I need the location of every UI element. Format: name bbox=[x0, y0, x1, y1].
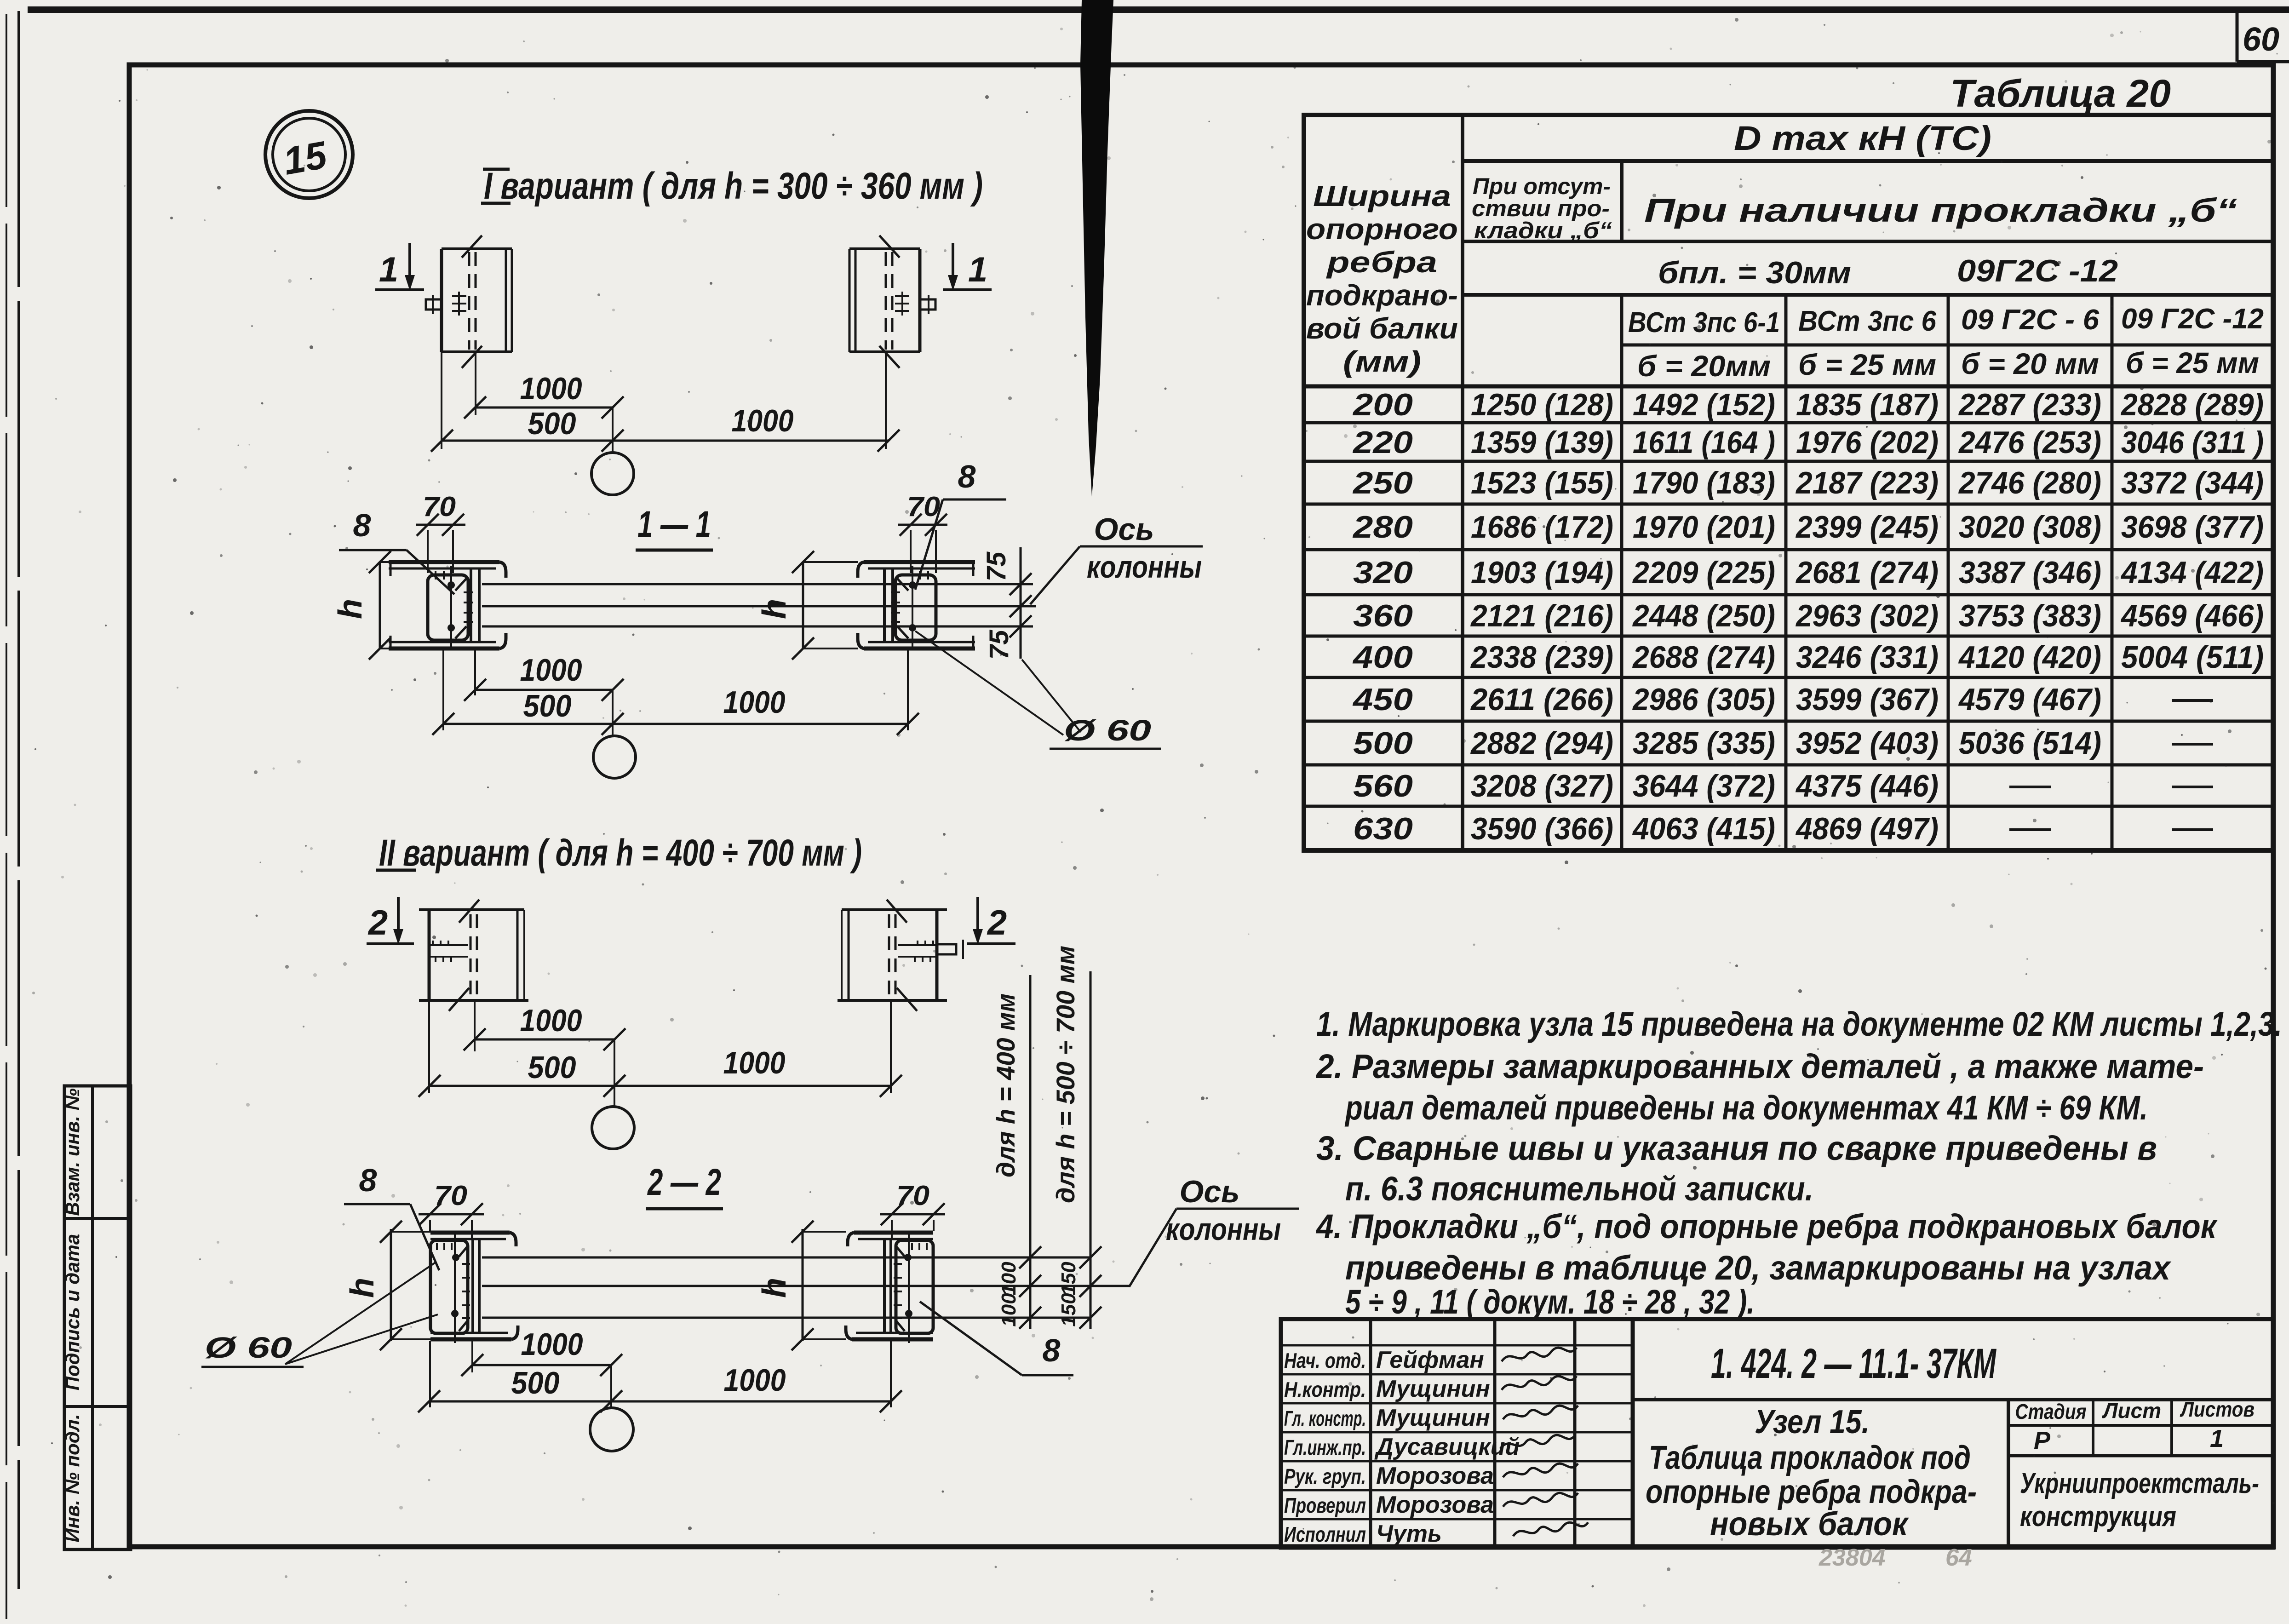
bottom flange bbox=[389, 647, 499, 651]
channel top flange bbox=[430, 1231, 510, 1235]
svg-text:Ø 60: Ø 60 bbox=[1064, 714, 1151, 747]
title text cell bbox=[2007, 1400, 2010, 1548]
svg-text:I вариант ( для h = 300 ÷ 360: I вариант ( для h = 300 ÷ 360 мм ) bbox=[484, 165, 983, 207]
svg-text:3599 (367): 3599 (367) bbox=[1796, 682, 1939, 717]
dim h left bbox=[379, 562, 381, 648]
svg-text:200: 200 bbox=[1352, 387, 1413, 422]
svg-text:При наличии прокладки „б“: При наличии прокладки „б“ bbox=[1644, 192, 2237, 229]
svg-text:2681 (274): 2681 (274) bbox=[1795, 555, 1939, 590]
svg-text:5004 (511): 5004 (511) bbox=[2121, 640, 2264, 675]
web bbox=[470, 568, 472, 642]
svg-text:5 ÷ 9 , 11 ( докум. 18 ÷ 28: 5 ÷ 9 , 11 ( докум. 18 ÷ 28 , 32 ). bbox=[1345, 1283, 1755, 1321]
table data row lines bbox=[1304, 421, 2273, 425]
svg-text:15: 15 bbox=[280, 133, 331, 183]
svg-text:4120 (420): 4120 (420) bbox=[1958, 640, 2101, 675]
svg-text:Рук. груп.: Рук. груп. bbox=[1284, 1464, 1366, 1488]
svg-text:2121 (216): 2121 (216) bbox=[1470, 598, 1613, 633]
svg-text:для h = 500 ÷ 700 мм: для h = 500 ÷ 700 мм bbox=[1051, 946, 1080, 1203]
svg-text:приведены в таблице 20, за: приведены в таблице 20, замаркированы на… bbox=[1345, 1249, 2172, 1287]
svg-text:2688 (274): 2688 (274) bbox=[1632, 640, 1775, 675]
svg-text:500: 500 bbox=[1353, 726, 1413, 761]
svg-text:h: h bbox=[756, 1278, 793, 1298]
hidden plate dashed edges bbox=[468, 252, 470, 350]
table header lines bbox=[1463, 159, 2273, 163]
dashed hidden edges bbox=[470, 914, 472, 998]
svg-text:100: 100 bbox=[998, 1262, 1020, 1296]
svg-text:опорные ребра подкра-: опорные ребра подкра- bbox=[1646, 1474, 1977, 1510]
hidden plate dashed edges bbox=[891, 252, 894, 350]
section 1-1 left channel bbox=[389, 562, 506, 648]
rib centre line bbox=[450, 566, 452, 648]
svg-text:Таблица 20: Таблица 20 bbox=[1950, 72, 2171, 115]
svg-text:II вариант ( для h = 400 ÷ 7: II вариант ( для h = 400 ÷ 700 мм ) bbox=[379, 832, 862, 874]
svg-text:ВСт 3пс 6-1: ВСт 3пс 6-1 bbox=[1628, 307, 1780, 339]
beam lines 2-2 bbox=[482, 1257, 1090, 1259]
svg-text:280: 280 bbox=[1352, 510, 1413, 545]
dim h right 2-2 bbox=[802, 1229, 804, 1341]
svg-text:2882 (294): 2882 (294) bbox=[1470, 726, 1613, 761]
svg-text:Р: Р bbox=[2034, 1427, 2051, 1454]
svg-text:Мущинин: Мущинин bbox=[1376, 1376, 1490, 1402]
crane beam channel: top flange bbox=[864, 560, 975, 564]
rib centre bbox=[908, 1231, 910, 1343]
dia 60 label 1-1 bbox=[915, 631, 1063, 735]
dim 70 left 2-2 bbox=[419, 1213, 484, 1216]
svg-text:Проверил: Проверил bbox=[1284, 1493, 1366, 1517]
axis kolonny label 2-2 bbox=[1129, 1209, 1176, 1287]
section 2-2 left channel bbox=[430, 1231, 518, 1343]
svg-text:для h = 400 мм: для h = 400 мм bbox=[991, 993, 1020, 1177]
weld rows bbox=[428, 944, 468, 946]
svg-text:5036 (514): 5036 (514) bbox=[1959, 726, 2101, 761]
column plate bbox=[935, 911, 939, 1000]
svg-text:вой балки: вой балки bbox=[1306, 312, 1458, 345]
svg-text:Стадия: Стадия bbox=[2015, 1400, 2087, 1423]
svg-text:Исполнил: Исполнил bbox=[1284, 1522, 1366, 1546]
bearing rib plate bbox=[428, 575, 468, 640]
web bbox=[889, 1239, 892, 1333]
beam end plate bbox=[440, 249, 443, 352]
svg-text:60: 60 bbox=[2243, 21, 2279, 58]
svg-text:1492 (152): 1492 (152) bbox=[1633, 387, 1775, 422]
svg-text:560: 560 bbox=[1353, 769, 1413, 803]
svg-text:23804: 23804 bbox=[1819, 1544, 1886, 1571]
svg-text:4375 (446): 4375 (446) bbox=[1795, 769, 1939, 803]
svg-text:б = 20мм: б = 20мм bbox=[1637, 350, 1771, 383]
title block verticals bbox=[1369, 1319, 1372, 1548]
svg-text:2399 (245): 2399 (245) bbox=[1795, 510, 1939, 545]
top page edge line bbox=[28, 6, 2289, 13]
svg-text:150: 150 bbox=[1057, 1262, 1080, 1296]
svg-text:8: 8 bbox=[359, 1162, 377, 1198]
svg-text:3372 (344): 3372 (344) bbox=[2121, 465, 2264, 500]
title block left rows bbox=[1281, 1344, 1633, 1347]
II variant plan left assembly bbox=[419, 900, 528, 1011]
svg-text:3. Сварные швы и указани: 3. Сварные швы и указания по сварке прив… bbox=[1316, 1129, 2157, 1167]
beam end plate bbox=[918, 249, 922, 352]
weld marks bbox=[452, 295, 466, 297]
section 1-1 right channel bbox=[858, 562, 975, 648]
svg-text:70: 70 bbox=[423, 491, 456, 522]
table 20 outer border bbox=[1304, 115, 2273, 850]
svg-text:Гл. констр.: Гл. констр. bbox=[1284, 1406, 1366, 1430]
svg-text:п. 6.3 пояснительной запис: п. 6.3 пояснительной записки. bbox=[1345, 1170, 1813, 1208]
extensions II plan bbox=[428, 1000, 430, 1093]
rib centre line bbox=[912, 566, 913, 648]
svg-text:500: 500 bbox=[528, 1050, 576, 1085]
svg-text:подкрано-: подкрано- bbox=[1306, 279, 1458, 312]
bearing rib bbox=[896, 1240, 933, 1333]
svg-text:D max кН (ТС): D max кН (ТС) bbox=[1734, 119, 1991, 157]
svg-text:1250 (128): 1250 (128) bbox=[1471, 387, 1613, 422]
bearing rib bbox=[430, 1240, 468, 1333]
II variant plan right assembly bbox=[838, 900, 947, 1011]
svg-text:64: 64 bbox=[1945, 1544, 1972, 1571]
node circle I plan bbox=[612, 407, 614, 453]
dim 1000 upper I plan bbox=[475, 407, 613, 409]
svg-text:500: 500 bbox=[528, 406, 576, 441]
dim h right bbox=[802, 562, 804, 648]
dim 70 right bbox=[898, 524, 947, 526]
svg-text:1. Маркировка узла 15 пр: 1. Маркировка узла 15 приведена на докум… bbox=[1316, 1005, 2282, 1043]
dim 70 left bbox=[416, 524, 465, 526]
svg-text:2828 (289): 2828 (289) bbox=[2120, 387, 2264, 422]
bottom flange bbox=[430, 1337, 511, 1342]
svg-text:4. Прокладки „б“, под опорны: 4. Прокладки „б“, под опорные ребра подк… bbox=[1315, 1207, 2218, 1245]
svg-text:(мм): (мм) bbox=[1343, 345, 1421, 378]
svg-text:h: h bbox=[756, 599, 793, 619]
svg-text:3644 (372): 3644 (372) bbox=[1633, 769, 1775, 803]
bearing rib plate bbox=[895, 575, 936, 640]
doc number cell bbox=[1633, 1398, 2273, 1401]
svg-text:h: h bbox=[332, 599, 369, 619]
rib centre bbox=[454, 1231, 456, 1343]
stamp boxes left margin bbox=[64, 1086, 131, 1549]
svg-text:новых балок: новых балок bbox=[1710, 1506, 1909, 1543]
svg-text:75: 75 bbox=[984, 630, 1014, 660]
dim 1000 upper 1-1 bbox=[475, 689, 613, 691]
node circle 1-1 bbox=[612, 690, 614, 736]
svg-text:2338 (239): 2338 (239) bbox=[1470, 640, 1613, 675]
svg-text:Чуть: Чуть bbox=[1376, 1521, 1442, 1547]
svg-text:Н.контр.: Н.контр. bbox=[1284, 1377, 1366, 1401]
svg-text:2611 (266): 2611 (266) bbox=[1470, 682, 1613, 717]
svg-text:1790 (183): 1790 (183) bbox=[1633, 465, 1775, 500]
svg-text:75: 75 bbox=[981, 551, 1011, 581]
svg-text:1611 (164 ): 1611 (164 ) bbox=[1633, 425, 1775, 460]
svg-text:1: 1 bbox=[2210, 1425, 2224, 1452]
svg-text:1686 (172): 1686 (172) bbox=[1471, 510, 1613, 545]
svg-text:2: 2 bbox=[987, 903, 1007, 942]
svg-text:3046 (311 ): 3046 (311 ) bbox=[2121, 425, 2264, 460]
svg-text:Ось: Ось bbox=[1094, 512, 1154, 547]
dim 70 right 2-2 bbox=[880, 1213, 945, 1216]
svg-text:Таблица прокладок под: Таблица прокладок под bbox=[1649, 1440, 1971, 1476]
svg-text:4569 (466): 4569 (466) bbox=[2120, 598, 2264, 633]
svg-text:Подпись и дата: Подпись и дата bbox=[62, 1234, 83, 1390]
svg-text:1000: 1000 bbox=[521, 1327, 583, 1362]
svg-text:Нач. отд.: Нач. отд. bbox=[1284, 1349, 1366, 1372]
crane beam channel: top flange bbox=[389, 560, 499, 564]
svg-text:б = 20 мм: б = 20 мм bbox=[1961, 347, 2099, 380]
svg-text:220: 220 bbox=[1352, 425, 1413, 460]
svg-text:2. Размеры замаркированных: 2. Размеры замаркированных деталей , а т… bbox=[1315, 1047, 2204, 1085]
svg-text:3020 (308): 3020 (308) bbox=[1959, 510, 2101, 545]
dim 1000 upper II plan bbox=[475, 1039, 614, 1041]
svg-text:1: 1 bbox=[968, 250, 987, 289]
svg-text:360: 360 bbox=[1353, 598, 1413, 633]
svg-text:3246 (331): 3246 (331) bbox=[1796, 640, 1939, 675]
svg-text:2448 (250): 2448 (250) bbox=[1632, 598, 1775, 633]
svg-text:3208 (327): 3208 (327) bbox=[1471, 769, 1613, 803]
svg-text:100: 100 bbox=[998, 1293, 1020, 1327]
weld ticks bbox=[926, 1243, 928, 1250]
svg-text:Листов: Листов bbox=[2180, 1397, 2255, 1421]
svg-text:630: 630 bbox=[1353, 811, 1413, 846]
svg-text:ребра: ребра bbox=[1325, 246, 1437, 279]
svg-text:320: 320 bbox=[1353, 555, 1413, 590]
svg-text:1 — 1: 1 — 1 bbox=[637, 504, 711, 545]
svg-text:70: 70 bbox=[896, 1180, 929, 1211]
svg-text:Мущинин: Мущинин bbox=[1376, 1405, 1490, 1431]
svg-text:Инв. № подл.: Инв. № подл. bbox=[62, 1414, 83, 1542]
svg-text:б = 25 мм: б = 25 мм bbox=[1798, 348, 1936, 381]
svg-text:1903 (194): 1903 (194) bbox=[1471, 555, 1613, 590]
bottom flange bbox=[852, 1337, 933, 1342]
svg-text:2: 2 bbox=[367, 903, 388, 942]
svg-text:1000: 1000 bbox=[520, 1003, 582, 1038]
break slashes bbox=[459, 900, 479, 923]
sheet corner 60 box bbox=[2236, 8, 2239, 62]
node 15 double circle bbox=[265, 111, 353, 198]
svg-text:4134 (422): 4134 (422) bbox=[2120, 555, 2264, 590]
svg-text:h: h bbox=[344, 1278, 381, 1298]
svg-text:70: 70 bbox=[434, 1180, 467, 1211]
svg-text:2986 (305): 2986 (305) bbox=[1632, 682, 1775, 717]
extension lines I plan bbox=[441, 352, 442, 449]
vertical dim lines dlya h bbox=[1029, 975, 1032, 1329]
dim 75 75 right bbox=[1020, 547, 1022, 659]
weld marks bbox=[895, 295, 909, 297]
svg-text:бпл. = 30мм: бпл. = 30мм bbox=[1658, 255, 1851, 290]
svg-text:Лист: Лист bbox=[2102, 1399, 2161, 1423]
svg-text:4063 (415): 4063 (415) bbox=[1632, 811, 1775, 846]
svg-text:09 Г2С -12: 09 Г2С -12 bbox=[2121, 303, 2264, 335]
svg-text:1: 1 bbox=[379, 250, 398, 289]
svg-text:09Г2С -12: 09Г2С -12 bbox=[1957, 253, 2118, 288]
section 1-1 lower extensions bbox=[442, 648, 444, 730]
break slashes bbox=[887, 900, 907, 923]
node circle 2-2 bbox=[610, 1365, 612, 1408]
svg-text:1000: 1000 bbox=[520, 371, 582, 406]
svg-text:4579 (467): 4579 (467) bbox=[1958, 682, 2101, 717]
svg-text:1000: 1000 bbox=[724, 1363, 786, 1398]
svg-text:2746 (280): 2746 (280) bbox=[1958, 465, 2101, 500]
I variant plan right assembly bbox=[849, 235, 935, 368]
svg-text:150: 150 bbox=[1057, 1293, 1080, 1327]
svg-text:450: 450 bbox=[1352, 682, 1413, 717]
svg-text:3387 (346): 3387 (346) bbox=[1959, 555, 2101, 590]
svg-text:кладки „б“: кладки „б“ bbox=[1474, 218, 1612, 243]
svg-text:3698 (377): 3698 (377) bbox=[2121, 510, 2264, 545]
svg-text:конструкция: конструкция bbox=[2020, 1501, 2176, 1532]
node circle II plan bbox=[614, 1039, 615, 1107]
weld ticks bbox=[927, 571, 929, 580]
web bbox=[891, 568, 894, 642]
svg-text:2963 (302): 2963 (302) bbox=[1795, 598, 1939, 633]
svg-text:1000: 1000 bbox=[520, 653, 582, 688]
svg-text:1523 (155): 1523 (155) bbox=[1471, 465, 1613, 500]
svg-text:3753 (383): 3753 (383) bbox=[1959, 598, 2101, 633]
weld ticks bbox=[436, 1243, 438, 1250]
svg-text:1000: 1000 bbox=[723, 685, 786, 720]
web bbox=[471, 1239, 474, 1333]
svg-text:250: 250 bbox=[1352, 465, 1413, 500]
section 2-2 lower extensions bbox=[429, 1341, 431, 1407]
svg-text:Морозова: Морозова bbox=[1376, 1492, 1494, 1518]
svg-text:1. 424. 2 — 11.1- 37КМ: 1. 424. 2 — 11.1- 37КМ bbox=[1711, 1340, 1997, 1387]
dim 500 1000 lower II plan bbox=[430, 1085, 891, 1087]
svg-text:опорного: опорного bbox=[1306, 212, 1458, 246]
svg-text:б = 25 мм: б = 25 мм bbox=[2126, 346, 2259, 379]
svg-text:Морозова: Морозова bbox=[1376, 1463, 1494, 1489]
svg-text:Дусавицкий: Дусавицкий bbox=[1374, 1434, 1520, 1460]
dashed hidden edges bbox=[895, 914, 897, 998]
svg-text:8: 8 bbox=[353, 507, 371, 543]
svg-text:1359 (139): 1359 (139) bbox=[1471, 425, 1613, 460]
svg-text:4869 (497): 4869 (497) bbox=[1795, 811, 1939, 846]
scan ink blob artifact bbox=[1080, 0, 1113, 497]
svg-text:1970 (201): 1970 (201) bbox=[1633, 510, 1775, 545]
svg-text:8: 8 bbox=[1043, 1332, 1061, 1368]
svg-text:риал деталей приведены н: риал деталей приведены на документах 41 … bbox=[1344, 1089, 2148, 1127]
svg-text:Ø 60: Ø 60 bbox=[205, 1331, 292, 1364]
svg-text:3952 (403): 3952 (403) bbox=[1796, 726, 1939, 761]
svg-text:2209 (225): 2209 (225) bbox=[1632, 555, 1775, 590]
dim 1000 upper 2-2 bbox=[472, 1364, 611, 1366]
svg-text:09 Г2С - 6: 09 Г2С - 6 bbox=[1961, 304, 2100, 336]
signatures scribbles bbox=[1502, 1348, 1577, 1361]
svg-text:Ось: Ось bbox=[1179, 1174, 1239, 1209]
svg-text:2 — 2: 2 — 2 bbox=[647, 1161, 721, 1203]
channel top flange bbox=[854, 1231, 933, 1235]
I variant plan left assembly bbox=[426, 235, 512, 368]
bottom flange bbox=[864, 647, 975, 651]
outer margin dashed line far left bbox=[6, 14, 7, 1619]
dim 500 1000 lower I plan bbox=[442, 440, 889, 442]
svg-text:1000: 1000 bbox=[732, 403, 794, 438]
column plate bbox=[428, 911, 431, 1000]
svg-text:3285 (335): 3285 (335) bbox=[1633, 726, 1775, 761]
beam lines between channels bbox=[482, 583, 1033, 585]
svg-text:500: 500 bbox=[511, 1366, 560, 1400]
dim 500 1000 lower 2-2 bbox=[429, 1400, 891, 1403]
table col1 divider bbox=[1461, 115, 1464, 850]
bolt stub right plan II bbox=[937, 944, 956, 954]
svg-text:70: 70 bbox=[907, 491, 940, 522]
svg-text:2476 (253): 2476 (253) bbox=[1958, 425, 2101, 460]
break slashes bbox=[879, 235, 900, 258]
svg-text:8: 8 bbox=[958, 459, 976, 494]
dia 60 label 2-2 bbox=[285, 1262, 436, 1364]
svg-text:2187 (223): 2187 (223) bbox=[1795, 465, 1939, 500]
svg-text:400: 400 bbox=[1352, 640, 1413, 675]
weld rows bbox=[898, 944, 938, 946]
svg-text:Гл.инж.пр.: Гл.инж.пр. bbox=[1284, 1435, 1366, 1459]
svg-text:колонны: колонны bbox=[1166, 1212, 1281, 1247]
axis kolonny label 1-1 bbox=[1030, 546, 1080, 604]
section 2-2 right channel bbox=[846, 1231, 933, 1343]
weld ticks bbox=[435, 571, 436, 580]
bolt stub bbox=[920, 299, 935, 310]
svg-text:Узел 15.: Узел 15. bbox=[1755, 1404, 1870, 1440]
svg-text:2287 (233): 2287 (233) bbox=[1958, 387, 2101, 422]
svg-text:500: 500 bbox=[523, 689, 572, 723]
stadiya list listov bbox=[2008, 1424, 2273, 1427]
outer sheet border left bbox=[17, 11, 20, 1589]
dim h left 2-2 bbox=[390, 1229, 392, 1341]
title block outer bbox=[1281, 1319, 2273, 1548]
svg-text:Ширина: Ширина bbox=[1313, 179, 1451, 212]
dim 500 1000 lower 1-1 bbox=[443, 723, 908, 725]
svg-text:1000: 1000 bbox=[723, 1045, 786, 1080]
break slashes bbox=[462, 235, 482, 258]
svg-text:1835 (187): 1835 (187) bbox=[1796, 387, 1939, 422]
svg-text:Взам. инв. №: Взам. инв. № bbox=[62, 1088, 83, 1216]
bolt stub bbox=[426, 299, 442, 310]
svg-text:ВСт 3пс 6: ВСт 3пс 6 bbox=[1798, 305, 1936, 337]
svg-text:1976 (202): 1976 (202) bbox=[1796, 425, 1939, 460]
svg-text:3590 (366): 3590 (366) bbox=[1471, 811, 1613, 846]
svg-text:колонны: колонны bbox=[1087, 550, 1202, 585]
svg-text:Гейфман: Гейфман bbox=[1376, 1347, 1484, 1373]
